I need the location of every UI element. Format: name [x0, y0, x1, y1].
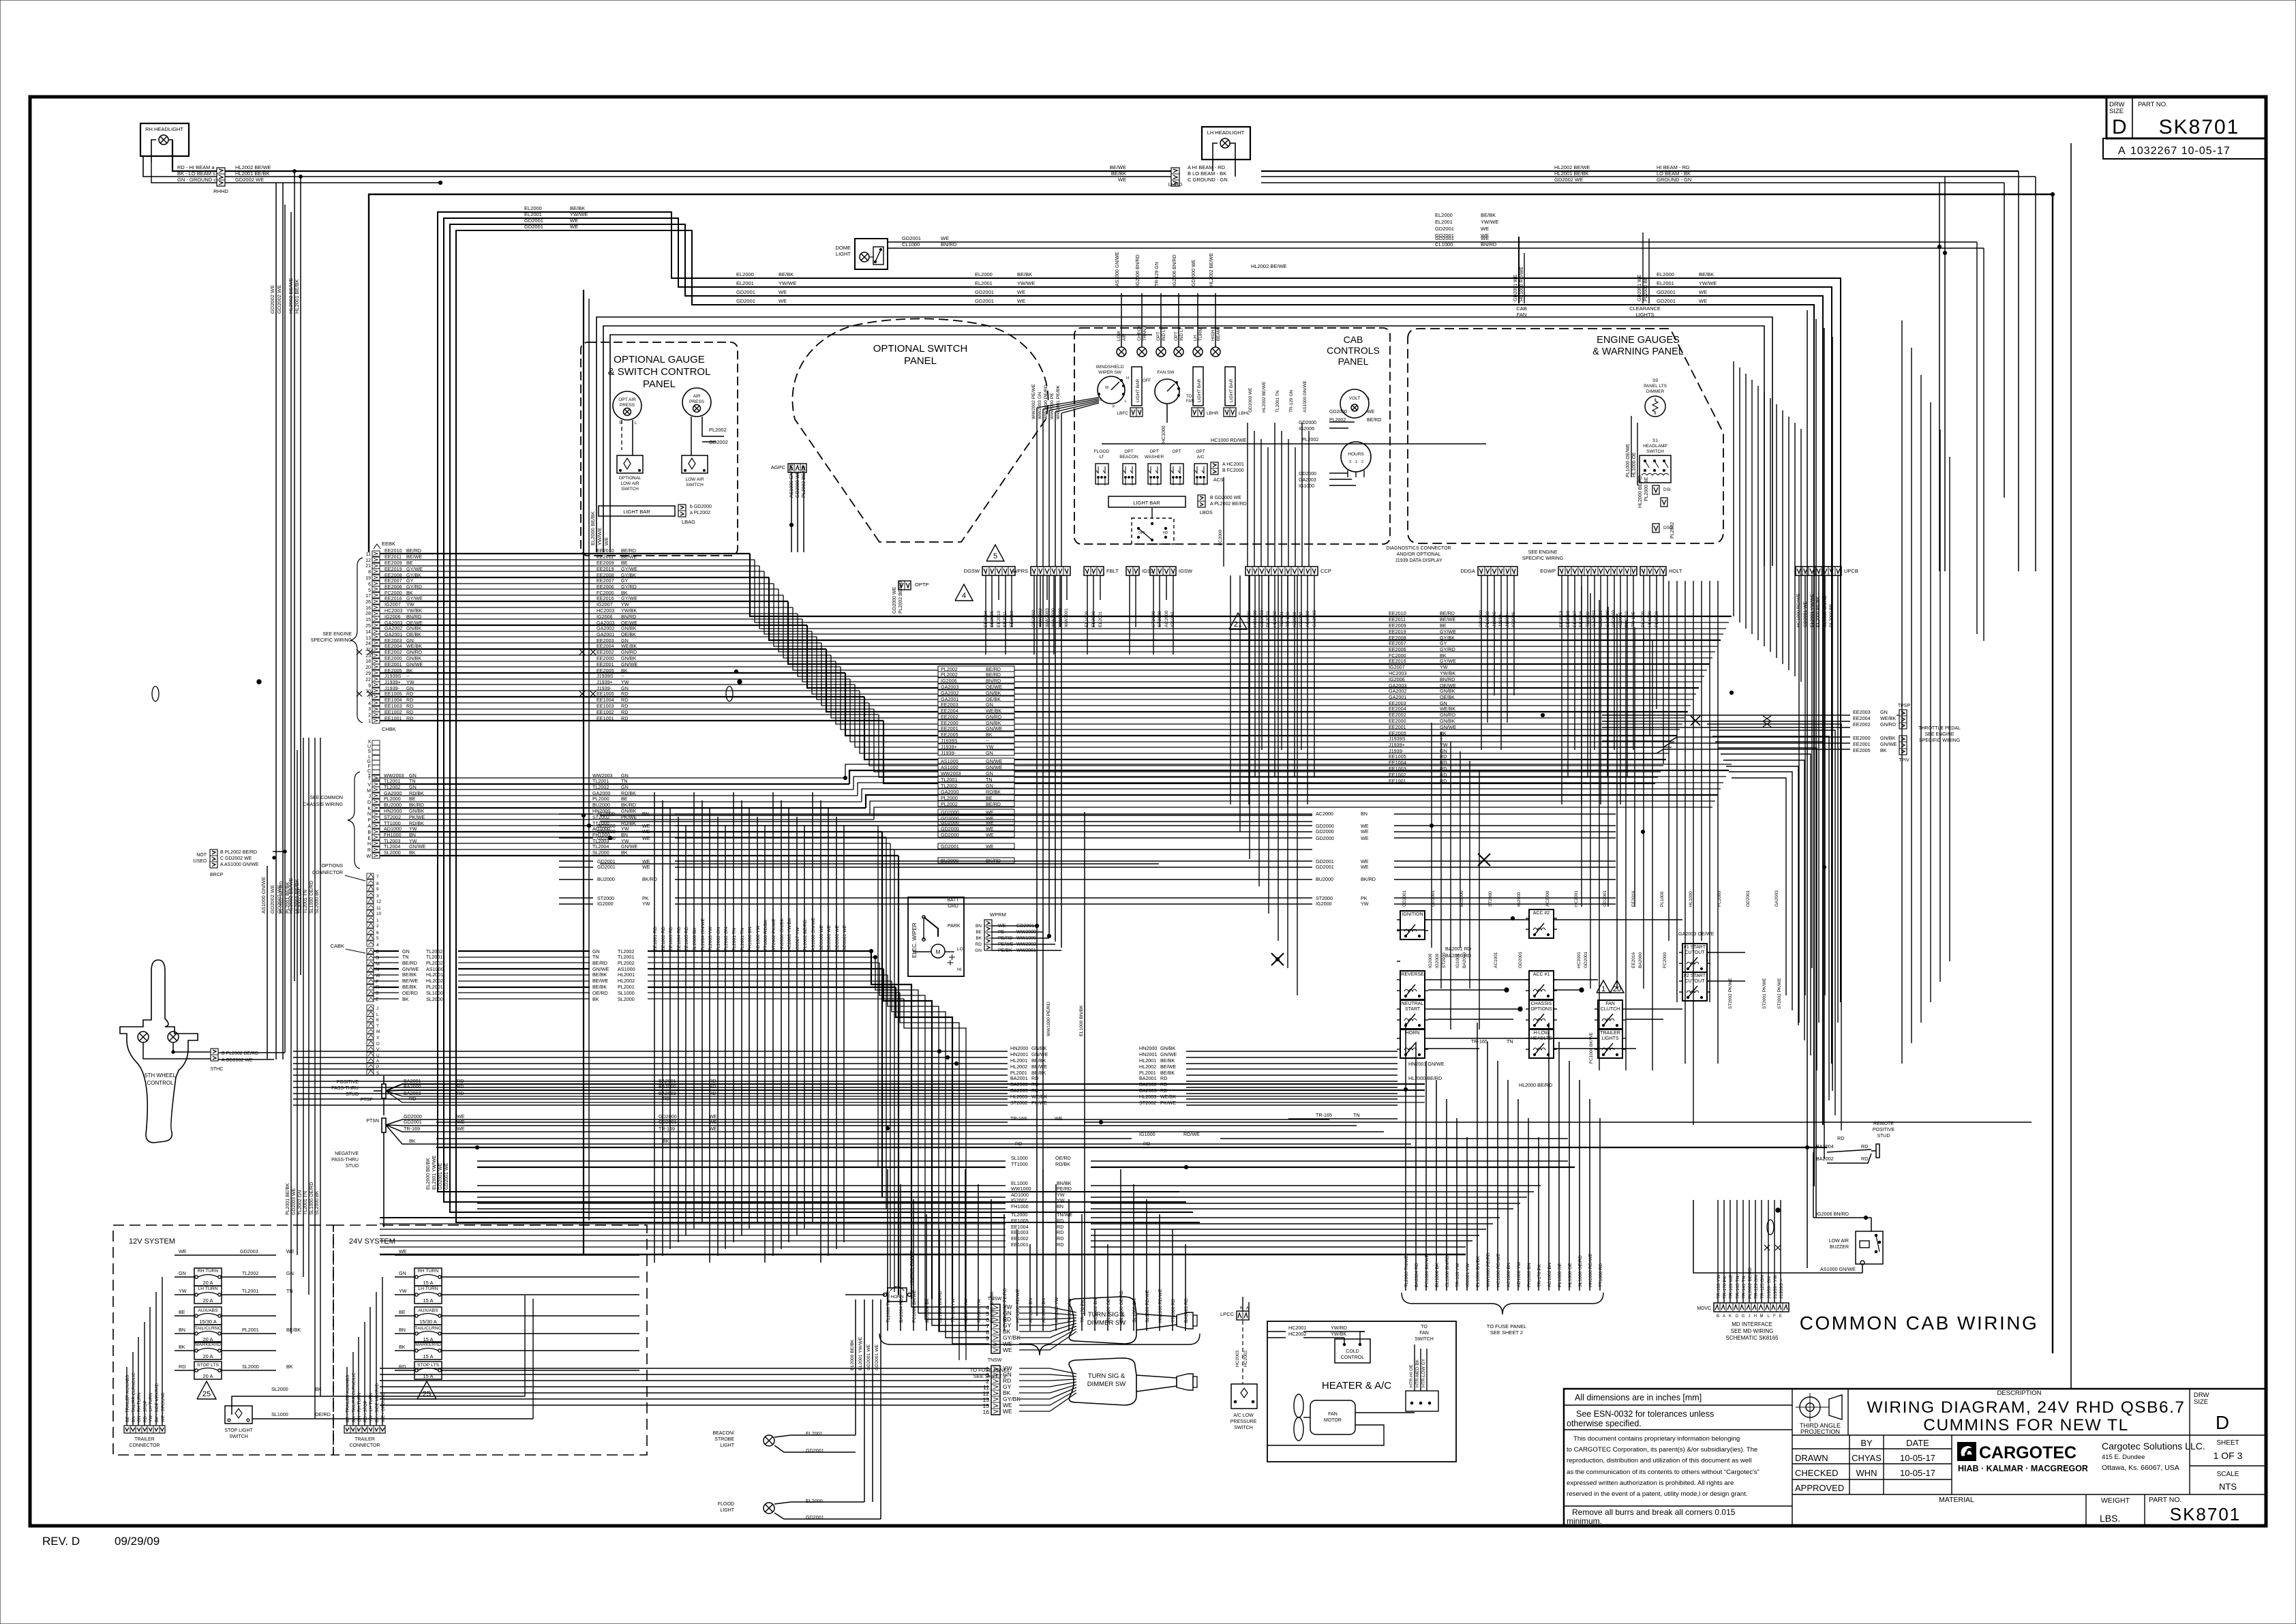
svg-text:PL2000: PL2000 [592, 796, 609, 802]
svg-text:OPT: OPT [1124, 449, 1133, 454]
svg-text:EL2001 YW/WE: EL2001 YW/WE [432, 1155, 437, 1190]
svg-text:LPCC: LPCC [1220, 1311, 1235, 1317]
svg-text:EE1001 RD: EE1001 RD [653, 927, 658, 951]
svg-text:All dimensions are in inches [: All dimensions are in inches [mm] [1575, 1393, 1702, 1402]
wire EE2004 WE/BK (engine bus) [372, 646, 380, 652]
svg-text:GD2002 WE: GD2002 WE [269, 285, 275, 314]
svg-text:GD2002 WE: GD2002 WE [1554, 177, 1583, 183]
svg-text:EE1004: EE1004 [596, 697, 614, 703]
svg-text:ST2002: ST2002 [384, 814, 401, 820]
svg-text:2: 2 [1361, 460, 1363, 464]
svg-text:S: S [367, 749, 371, 754]
svg-text:HC2001: HC2001 [1288, 1325, 1306, 1331]
svg-text:TO: TO [1186, 395, 1192, 399]
svg-text:EE2009: EE2009 [1389, 622, 1406, 629]
svg-text:GD2001: GD2001 [1657, 289, 1676, 295]
svg-text:GA2002: GA2002 [384, 625, 402, 631]
svg-text:WE: WE [457, 1126, 465, 1132]
svg-text:PART NO.: PART NO. [2149, 1496, 2181, 1504]
svg-text:EEBK: EEBK [382, 541, 395, 547]
svg-text:BE: BE [621, 796, 628, 802]
svg-text:N: N [367, 812, 371, 817]
svg-text:BE/BK: BE/BK [570, 205, 585, 211]
svg-text:T: T [376, 1024, 379, 1029]
svg-text:BE/BK: BE/BK [592, 972, 607, 978]
svg-text:CUTOUT: CUTOUT [1685, 979, 1705, 984]
svg-text:20 A: 20 A [202, 1353, 213, 1359]
svg-text:BN: BN [409, 832, 416, 838]
svg-text:DESCRIPTION: DESCRIPTION [1997, 1389, 2042, 1397]
svg-text:GD2000: GD2000 [597, 828, 616, 834]
svg-text:FBLT: FBLT [1106, 568, 1119, 574]
svg-text:NOT: NOT [196, 853, 207, 858]
svg-text:OPT: OPT [1196, 449, 1205, 454]
svg-text:EL2000 BE/BK: EL2000 BE/BK [426, 1158, 431, 1190]
switch: low air [682, 455, 708, 473]
svg-text:OFF: OFF [1143, 379, 1151, 383]
svg-text:TNSW: TNSW [988, 1358, 1002, 1363]
wire SL2000 (cab bus) [367, 996, 374, 1002]
svg-text:GD2001: GD2001 [1584, 951, 1588, 968]
svg-text:SL2000 BK: SL2000 BK [315, 1190, 320, 1215]
svg-text:OPT: OPT [1174, 332, 1179, 341]
svg-text:8: 8 [376, 882, 379, 886]
svg-text:PL2002: PL2002 [426, 960, 443, 966]
svg-text:VOLT: VOLT [1349, 396, 1361, 401]
svg-text:YW/BK: YW/BK [1440, 670, 1455, 676]
svg-text:GY: GY [1440, 640, 1447, 646]
svg-text:RD/WE: RD/WE [1183, 1131, 1200, 1137]
svg-text:RD: RD [406, 715, 413, 721]
wire EE2002 GN/RD (engine bus) [372, 652, 380, 658]
svg-text:WW2001: WW2001 [1064, 608, 1069, 627]
svg-text:BA2000: BA2000 [1139, 1081, 1157, 1087]
svg-text:M: M [936, 949, 941, 955]
svg-text:WE: WE [709, 1126, 717, 1132]
svg-text:GD2000 WE: GD2000 WE [892, 586, 897, 614]
svg-text:TT1000 RD: TT1000 RD [1599, 1263, 1603, 1287]
svg-text:BE: BE [621, 560, 628, 566]
svg-text:PRESSURE: PRESSURE [1230, 1419, 1257, 1424]
svg-text:TL2002: TL2002 [384, 784, 400, 790]
svg-text:BN: BN [621, 832, 628, 838]
svg-text:IG1001: IG1001 [1455, 953, 1460, 968]
wire EE1004 RD (engine bus) [372, 700, 380, 706]
svg-text:HN2000: HN2000 [1139, 1045, 1157, 1051]
svg-text:CHYAS: CHYAS [1852, 1453, 1882, 1463]
svg-text:1: 1 [1601, 985, 1605, 993]
by/date table [1792, 1448, 1952, 1449]
svg-text:BU2000: BU2000 [384, 802, 402, 808]
svg-text:CAB: CAB [1516, 305, 1526, 312]
LH headlight [1202, 127, 1250, 160]
svg-text:WE: WE [1118, 177, 1126, 183]
svg-text:SL1000: SL1000 [1011, 1155, 1028, 1161]
svg-text:YW/WE: YW/WE [1481, 219, 1498, 225]
svg-text:SEE ENGINE: SEE ENGINE [1528, 550, 1558, 555]
wire crossover X [1271, 953, 1284, 965]
svg-text:PRESS: PRESS [620, 403, 635, 408]
svg-text:EE2002: EE2002 [384, 649, 402, 655]
svg-text:PL2002: PL2002 [941, 672, 958, 678]
svg-text:EE2004: EE2004 [1853, 715, 1871, 721]
svg-text:25: 25 [202, 1390, 211, 1398]
svg-text:HL2002: HL2002 [426, 978, 443, 984]
svg-text:L: L [376, 1012, 379, 1017]
svg-text:PART NO.: PART NO. [2138, 101, 2168, 108]
svg-text:FC1000 BK/WE: FC1000 BK/WE [912, 1290, 917, 1323]
svg-text:YW: YW [621, 826, 629, 832]
svg-text:PL2001 BE/BK: PL2001 BE/BK [286, 882, 290, 914]
svg-text:M: M [367, 789, 371, 794]
svg-text:WW2002 PE/WE: WW2002 PE/WE [1031, 384, 1036, 419]
svg-text:CONNECTOR: CONNECTOR [312, 871, 343, 875]
svg-text:BRCP: BRCP [210, 873, 224, 877]
svg-text:25: 25 [365, 624, 371, 629]
svg-text:LIGHTS: LIGHTS [1601, 1036, 1619, 1041]
wire ST2002 PK/WE (chassis bus) [372, 817, 380, 822]
svg-text:CARGOTEC: CARGOTEC [1979, 1443, 2076, 1462]
connector UPCB [1796, 567, 1841, 575]
svg-text:BE/RD: BE/RD [986, 672, 1001, 678]
svg-text:GN: GN [621, 784, 629, 790]
svg-text:BE/RD: BE/RD [986, 801, 1001, 807]
svg-text:PL2002 BE/RD: PL2002 BE/RD [898, 582, 903, 614]
svg-text:IG2006: IG2006 [1299, 427, 1314, 432]
svg-text:PL2001: PL2001 [242, 1327, 259, 1333]
cold control [1335, 1339, 1370, 1363]
svg-text:--: -- [621, 673, 624, 679]
warning triangles 1 & 20 [1597, 980, 1610, 993]
svg-text:A HC2001: A HC2001 [1222, 462, 1244, 467]
svg-text:EE2016: EE2016 [596, 595, 614, 601]
svg-text:LIGHT: LIGHT [836, 251, 851, 257]
svg-text:GD2001: GD2001 [1435, 232, 1454, 239]
svg-text:PL2002: PL2002 [1302, 438, 1318, 442]
fan switch [1155, 379, 1179, 404]
svg-text:BE/BK: BE/BK [1481, 212, 1496, 218]
svg-text:SL2000 BK: SL2000 BK [315, 889, 320, 914]
wire: gauge panel [621, 420, 622, 450]
svg-text:BE: BE [409, 796, 416, 802]
svg-text:5THC: 5THC [211, 1067, 223, 1072]
svg-text:HC1000 RD/WE: HC1000 RD/WE [1016, 1289, 1021, 1323]
wire GA2003 OE/WE (engine bus) [372, 622, 380, 628]
windshield wiper switch [1098, 376, 1125, 404]
svg-text:BY: BY [1860, 1438, 1873, 1448]
svg-text:RD: RD [406, 697, 413, 703]
svg-text:YW/WE: YW/WE [1699, 280, 1717, 286]
svg-text:GD2001 WE: GD2001 WE [438, 1162, 443, 1190]
svg-text:BK/RD: BK/RD [409, 802, 424, 808]
svg-text:WPRS: WPRS [1013, 568, 1029, 574]
svg-text:RHHD: RHHD [213, 188, 228, 194]
svg-text:LOW: LOW [1117, 330, 1121, 341]
svg-text:SL2000: SL2000 [592, 849, 609, 856]
svg-text:EE1003: EE1003 [596, 703, 614, 709]
svg-text:RD: RD [406, 709, 413, 715]
svg-text:BA2000: BA2000 [1462, 952, 1467, 968]
svg-text:PL2002: PL2002 [941, 801, 958, 807]
svg-text:BE/RD: BE/RD [402, 960, 417, 966]
wire bundle: MD interface [1717, 1200, 1719, 1303]
svg-text:TR-169 WE: TR-169 WE [1729, 1274, 1734, 1299]
svg-text:GN/BK: GN/BK [621, 655, 637, 661]
svg-text:WPRM: WPRM [990, 912, 1006, 918]
svg-text:AIR: AIR [1122, 333, 1127, 341]
svg-text:CHECK: CHECK [1137, 325, 1142, 341]
svg-text:GD2001: GD2001 [1316, 864, 1334, 870]
wire bundle: centre descend verticals [654, 792, 655, 1263]
svg-text:GD2000 WE: GD2000 WE [1192, 259, 1196, 286]
svg-text:FC2000: FC2000 [1717, 890, 1722, 907]
notes: dimensions [1564, 1404, 1792, 1406]
wire EE2019 GY/WE (engine bus) [372, 569, 380, 574]
svg-text:WE: WE [642, 828, 650, 834]
svg-text:IG2006: IG2006 [941, 678, 957, 684]
svg-text:6: 6 [368, 582, 371, 587]
svg-text:TN/WE: TN/WE [1057, 1212, 1072, 1218]
svg-text:EE2001: EE2001 [596, 661, 614, 667]
svg-text:GN: GN [286, 1270, 294, 1276]
svg-text:IG2000: IG2000 [1435, 953, 1440, 968]
relay REVERSE [1400, 971, 1425, 999]
svg-text:RD: RD [1031, 1075, 1038, 1081]
svg-text:TL2001 TN: TL2001 TN [1275, 390, 1280, 412]
svg-text:#1 START: #1 START [1684, 945, 1706, 950]
svg-text:EE1001: EE1001 [384, 715, 402, 721]
third angle projection symbol [1792, 1434, 2266, 1436]
svg-text:GN/BK: GN/BK [1031, 1045, 1047, 1051]
DSI connector [1652, 485, 1659, 494]
svg-text:ST2002: ST2002 [1139, 1100, 1156, 1106]
svg-text:HN2001: HN2001 [1010, 1051, 1028, 1057]
svg-text:HN2001 GN/WE: HN2001 GN/WE [910, 1250, 915, 1285]
svg-text:SEE SHEET 2: SEE SHEET 2 [1490, 1329, 1523, 1336]
svg-text:7: 7 [368, 695, 371, 700]
svg-text:BE/BK: BE/BK [286, 1327, 301, 1333]
svg-text:SPECIFIC WIRING: SPECIFIC WIRING [311, 638, 352, 643]
svg-text:18: 18 [365, 659, 371, 664]
svg-text:K: K [376, 1018, 380, 1023]
svg-text:BN: BN [399, 1327, 406, 1333]
svg-text:RD: RD [1057, 1235, 1063, 1242]
svg-text:J1939S: J1939S [384, 673, 402, 679]
svg-text:EE2010: EE2010 [1389, 610, 1406, 616]
svg-text:BN/RD: BN/RD [621, 614, 636, 620]
svg-text:EE2016: EE2016 [1631, 890, 1636, 907]
svg-text:HN2000 GN/BK: HN2000 GN/BK [780, 918, 785, 951]
svg-text:BE/BK: BE/BK [402, 972, 417, 978]
svg-text:SIZE: SIZE [2109, 108, 2124, 115]
svg-text:LIGHT: LIGHT [720, 1508, 734, 1513]
svg-text:TL2001 TN: TL2001 TN [732, 928, 737, 951]
svg-text:GA2001: GA2001 [596, 631, 614, 637]
indicator lamps row [1117, 347, 1126, 357]
svg-text:DRAWN: DRAWN [1795, 1453, 1828, 1463]
svg-text:EE2000: EE2000 [1853, 735, 1871, 741]
svg-text:YW: YW [621, 679, 629, 685]
heater & a/c box [1267, 1321, 1456, 1462]
svg-text:20 A: 20 A [202, 1373, 213, 1379]
svg-text:W: W [376, 974, 380, 978]
svg-text:TURN SIG &: TURN SIG & [1088, 1372, 1126, 1380]
svg-text:AC1001: AC1001 [1494, 952, 1498, 968]
svg-text:GD2002 WE: GD2002 WE [235, 177, 264, 183]
svg-text:WE: WE [1361, 828, 1369, 834]
svg-text:LIGHT: LIGHT [720, 1443, 734, 1448]
svg-text:C GROUND - GN: C GROUND - GN [1188, 177, 1228, 183]
svg-text:REVERSE: REVERSE [1401, 972, 1424, 977]
svg-text:RD: RD [1031, 1087, 1038, 1094]
svg-text:BE: BE [976, 930, 982, 935]
svg-text:EE2001: EE2001 [384, 661, 402, 667]
svg-text:LOW AIR: LOW AIR [620, 481, 639, 486]
svg-text:WE: WE [179, 1248, 187, 1254]
svg-text:START: START [1405, 1007, 1421, 1012]
svg-text:SWITCH: SWITCH [1646, 449, 1664, 454]
svg-text:BK: BK [986, 732, 993, 738]
svg-text:RH TURN: RH TURN [198, 1269, 219, 1274]
svg-text:PL2001 BE/BK: PL2001 BE/BK [286, 1183, 290, 1215]
svg-text:WE/BK: WE/BK [1880, 715, 1896, 721]
svg-text:DIMMER: DIMMER [1646, 389, 1665, 394]
svg-text:reserved in the event of a pat: reserved in the event of a patent, utili… [1567, 1490, 1748, 1498]
svg-text:AS1000 GN/WE: AS1000 GN/WE [1303, 380, 1308, 412]
svg-text:EE2016: EE2016 [1389, 658, 1406, 664]
svg-text:EL1000 BN/BK: EL1000 BN/BK [1476, 1256, 1481, 1287]
svg-text:SEE MD WIRING: SEE MD WIRING [1731, 1328, 1774, 1334]
svg-text:EL2001: EL2001 [736, 280, 754, 286]
svg-text:GN/RD: GN/RD [1440, 712, 1455, 718]
svg-text:PL2002 BE/RD: PL2002 BE/RD [1748, 1267, 1753, 1299]
svg-text:BA2000: BA2000 [1010, 1081, 1028, 1087]
svg-text:EE2004: EE2004 [384, 643, 402, 649]
svg-text:15/30 A: 15/30 A [419, 1319, 436, 1325]
wire GA2000 RD/BK (chassis bus) [372, 793, 380, 798]
svg-text:TN: TN [402, 954, 409, 960]
svg-text:BE: BE [179, 1309, 185, 1315]
volt gauge [1340, 389, 1369, 418]
svg-text:BA2003 RD: BA2003 RD [1184, 1298, 1189, 1323]
svg-text:WE/BK: WE/BK [406, 643, 422, 649]
svg-text:J1939S: J1939S [1389, 736, 1406, 742]
svg-text:8: 8 [368, 570, 371, 575]
svg-text:BN/RD: BN/RD [986, 678, 1001, 684]
svg-text:b GD2000: b GD2000 [690, 505, 712, 509]
svg-text:AS1000: AS1000 [941, 764, 958, 770]
svg-text:CLEARANCE: CLEARANCE [1629, 305, 1661, 312]
svg-text:YW: YW [986, 744, 994, 750]
svg-text:GN/RD: GN/RD [406, 649, 422, 655]
wire HL2002 (cab bus) [367, 978, 374, 984]
svg-text:YW/WE: YW/WE [779, 280, 796, 286]
svg-text:SPECIFIC WIRING: SPECIFIC WIRING [1919, 738, 1960, 743]
svg-text:TR-165: TR-165 [1471, 1038, 1487, 1044]
wire IG2007 YW (engine bus) [372, 605, 380, 610]
svg-text:FAN: FAN [1419, 1331, 1429, 1336]
svg-text:SL1000: SL1000 [618, 990, 635, 996]
svg-text:EL2000: EL2000 [1657, 271, 1674, 277]
svg-text:BE/RD: BE/RD [592, 960, 607, 966]
5th wheel control joystick [120, 960, 198, 1143]
svg-text:17: 17 [365, 594, 371, 599]
svg-text:A HI BEAM - RD: A HI BEAM - RD [1188, 164, 1226, 170]
svg-text:K: K [367, 807, 371, 811]
connector EGWP [1558, 567, 1637, 575]
svg-text:B PL2002 BE/RD: B PL2002 BE/RD [222, 1051, 258, 1056]
svg-text:RD: RD [1057, 1218, 1063, 1224]
svg-text:THROTTLE PEDAL: THROTTLE PEDAL [1918, 726, 1961, 731]
wire EL1000/WW1000 rows [477, 1185, 1006, 1186]
svg-text:GN: GN [975, 948, 982, 953]
svg-text:P: P [1113, 405, 1115, 409]
relay NEUTRAL START [1400, 1000, 1425, 1029]
svg-text:B FC2000: B FC2000 [1222, 468, 1244, 473]
svg-text:STUD: STUD [346, 1164, 359, 1169]
svg-text:LBOS: LBOS [1200, 511, 1213, 515]
svg-text:MATERIAL: MATERIAL [1939, 1496, 1974, 1504]
svg-text:WE: WE [570, 224, 578, 230]
svg-text:BK: BK [976, 936, 982, 941]
svg-text:BK/RD: BK/RD [642, 876, 657, 882]
svg-text:HC2001: HC2001 [1577, 952, 1582, 968]
svg-text:BE/BK: BE/BK [592, 984, 607, 990]
svg-text:CHBK: CHBK [382, 726, 396, 732]
svg-text:E: E [376, 997, 379, 1002]
svg-text:BE/BK: BE/BK [779, 271, 794, 277]
svg-text:EE2006: EE2006 [596, 584, 614, 590]
svg-text:LIGHT BAR: LIGHT BAR [1197, 378, 1202, 402]
light bar (cab, horizontal) [1108, 496, 1185, 507]
svg-text:20 A: 20 A [202, 1297, 213, 1304]
wire bundle: left verticals to bottom systems [303, 738, 304, 1277]
wire TT1000 RD/BK (chassis bus) [372, 823, 380, 828]
svg-text:EL2001: EL2001 [1435, 219, 1453, 225]
svg-text:HORN: HORN [890, 1295, 903, 1299]
svg-text:J1939+: J1939+ [1389, 742, 1405, 748]
relay ACC #1 [1529, 971, 1554, 999]
svg-text:YW: YW [406, 601, 414, 607]
svg-text:1032267 10-05-17: 1032267 10-05-17 [2130, 145, 2231, 157]
svg-text:BU2000: BU2000 [597, 876, 615, 882]
svg-text:HC1000 RD/WE: HC1000 RD/WE [1496, 1253, 1501, 1287]
svg-text:TL2004: TL2004 [384, 843, 400, 849]
switch: optional low air [617, 455, 643, 473]
wire EE1001 RD (engine bus) [372, 718, 380, 723]
svg-text:WW1000 PE/RD: WW1000 PE/RD [1044, 385, 1048, 419]
svg-text:J1939S: J1939S [596, 673, 614, 679]
svg-text:IG2006 BN/RD: IG2006 BN/RD [1136, 254, 1141, 286]
svg-text:D: D [2112, 116, 2127, 138]
svg-text:EL2000: EL2000 [524, 205, 542, 211]
wire BU2000 BK/RD (chassis bus) [372, 805, 380, 811]
svg-text:BK: BK [399, 1344, 406, 1350]
svg-text:LT: LT [1099, 455, 1104, 460]
svg-text:TPIV: TPIV [1899, 758, 1909, 763]
svg-text:GN/BK: GN/BK [409, 808, 425, 814]
svg-text:HTR-LOW GY: HTR-LOW GY [1421, 1358, 1426, 1387]
svg-text:CAB: CAB [1344, 334, 1363, 345]
svg-text:EL2000: EL2000 [975, 271, 993, 277]
svg-text:TR-141 TN: TR-141 TN [1742, 1276, 1747, 1299]
svg-text:HL2001: HL2001 [426, 972, 443, 978]
svg-text:EL2000 BE/BK: EL2000 BE/BK [590, 511, 596, 545]
svg-text:BE/BK: BE/BK [402, 984, 417, 990]
svg-text:A: A [1723, 1314, 1725, 1319]
svg-text:ST2002: ST2002 [1010, 1100, 1027, 1106]
svg-text:26: 26 [365, 600, 371, 605]
